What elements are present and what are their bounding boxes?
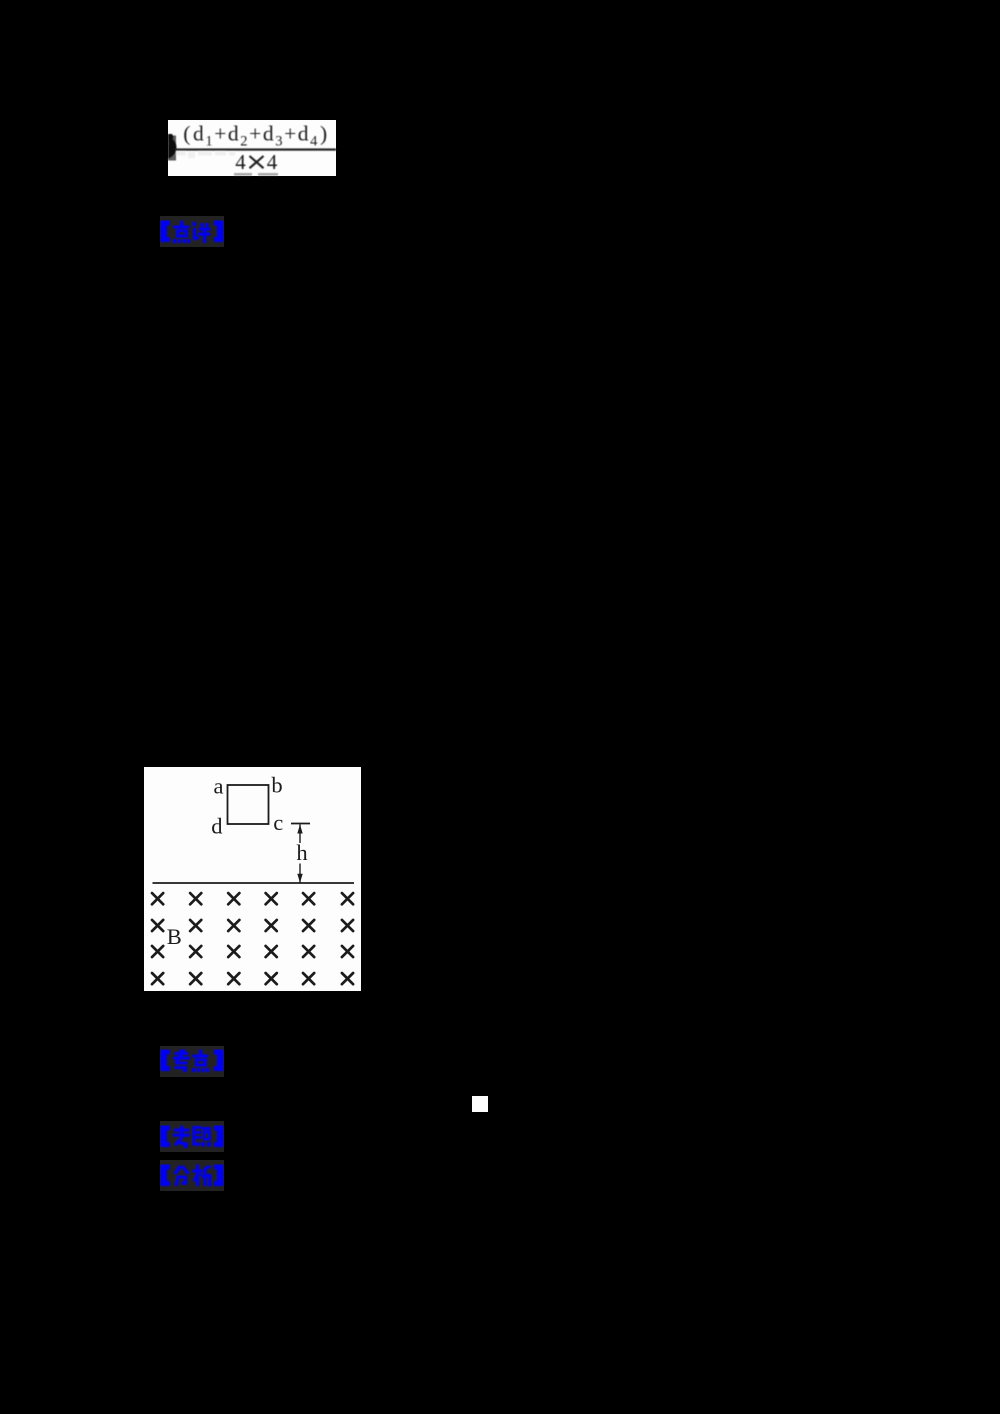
svg-text:B: B [167,924,182,949]
svg-text:a: a [214,774,224,799]
svg-text:h: h [296,840,307,865]
svg-text:(d1+d2+d3+d4): (d1+d2+d3+d4) [183,121,329,149]
svg-text:c: c [273,810,283,835]
svg-text:b: b [271,773,282,798]
svg-text:4: 4 [235,150,246,174]
svg-text:4: 4 [267,150,278,174]
svg-text:d: d [211,814,222,839]
